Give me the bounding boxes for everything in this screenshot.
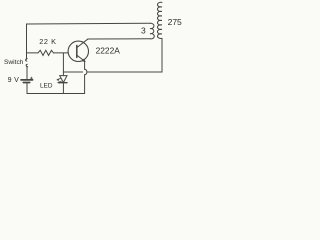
wire collector rail to primary bbox=[88, 38, 151, 40]
svg-text:LED: LED bbox=[40, 83, 53, 90]
wire right rail secondary to corner bbox=[161, 38, 163, 72]
wire battery to bottom rail bbox=[26, 83, 28, 94]
svg-text:Switch: Switch bbox=[4, 59, 24, 66]
wire switch to battery bbox=[26, 67, 28, 79]
wire right rail corner to feedback wire bbox=[161, 71, 164, 73]
transistor Q1 2222A circle bbox=[68, 41, 88, 61]
svg-text:2222A: 2222A bbox=[96, 46, 121, 56]
wire top rail bbox=[27, 22, 151, 25]
LED D1 triangle bbox=[60, 76, 67, 83]
wire feedback LED node to right rail bbox=[63, 71, 162, 73]
battery plus mark bbox=[30, 77, 32, 79]
transistor collector diagonal bbox=[77, 39, 88, 47]
battery B1 plate short bbox=[23, 82, 29, 84]
wire emitter hop over feedback wire bbox=[85, 69, 87, 75]
svg-text:9 V: 9 V bbox=[8, 76, 20, 84]
wire resistor to base bbox=[54, 52, 69, 54]
svg-text:22 K: 22 K bbox=[39, 37, 56, 46]
wire base branch from left rail bbox=[27, 52, 39, 54]
svg-text:3: 3 bbox=[141, 26, 146, 36]
resistor R1 22K zigzag bbox=[38, 50, 54, 55]
LED cathode to bottom rail bbox=[62, 83, 64, 94]
switch S1 bbox=[26, 59, 28, 62]
wire emitter down bbox=[84, 62, 86, 70]
svg-text:275: 275 bbox=[168, 17, 182, 27]
transformer T1 primary winding 3 turns bbox=[150, 23, 154, 39]
battery B1 9V plate long bbox=[21, 79, 33, 81]
transformer T1 secondary winding 275 turns bbox=[157, 2, 162, 38]
transistor emitter arrowhead bbox=[82, 59, 85, 62]
wire LED anode from base node bbox=[62, 53, 64, 76]
transistor base bar bbox=[76, 45, 78, 57]
wire left rail upper bbox=[26, 24, 28, 59]
LED emission arrows bbox=[57, 78, 61, 82]
LED cathode bar bbox=[60, 82, 67, 84]
wire bottom rail bbox=[27, 93, 85, 95]
wire emitter to bottom rail bbox=[84, 75, 86, 94]
transistor emitter diagonal bbox=[77, 55, 85, 61]
